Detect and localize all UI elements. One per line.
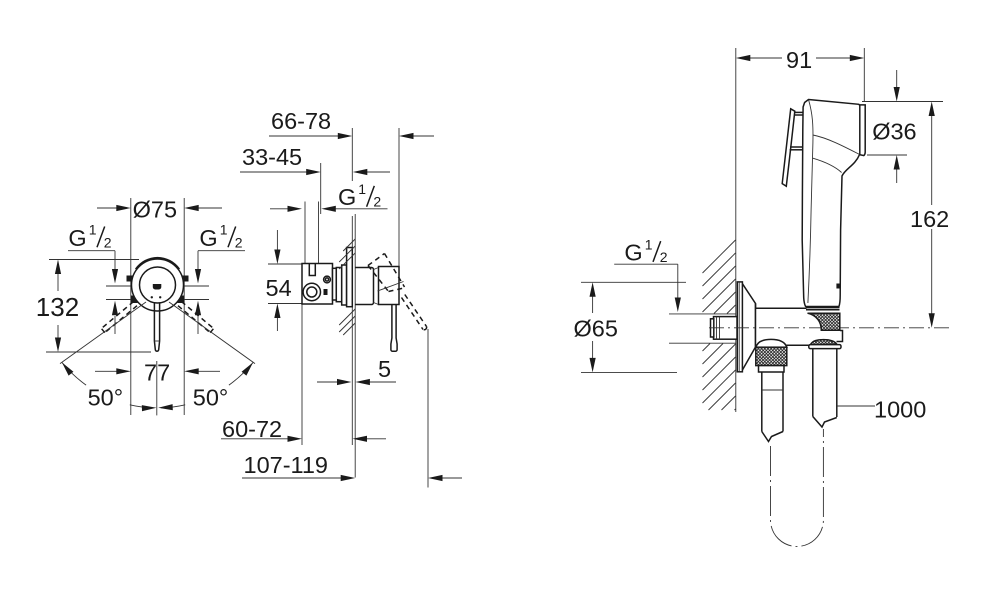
svg-text:G: G: [68, 225, 86, 251]
svg-text:2: 2: [660, 249, 668, 265]
svg-text:5: 5: [378, 356, 391, 382]
svg-text:G: G: [199, 225, 217, 251]
svg-text:Ø75: Ø75: [133, 197, 177, 223]
svg-text:1: 1: [358, 181, 366, 197]
svg-text:Ø36: Ø36: [872, 119, 916, 145]
svg-text:50°: 50°: [193, 385, 229, 411]
svg-text:2: 2: [104, 234, 112, 250]
svg-text:107-119: 107-119: [244, 452, 329, 478]
svg-text:54: 54: [266, 275, 292, 301]
svg-text:132: 132: [36, 292, 79, 322]
svg-text:2: 2: [373, 194, 381, 210]
svg-text:91: 91: [786, 47, 812, 73]
svg-text:33-45: 33-45: [242, 144, 302, 170]
svg-text:50°: 50°: [88, 385, 124, 411]
svg-text:Ø65: Ø65: [574, 316, 618, 342]
svg-text:1: 1: [220, 221, 228, 237]
svg-text:G: G: [624, 240, 642, 266]
svg-text:162: 162: [910, 206, 949, 232]
svg-text:1000: 1000: [874, 397, 926, 423]
svg-text:2: 2: [235, 234, 243, 250]
svg-text:60-72: 60-72: [222, 416, 282, 442]
svg-text:1: 1: [89, 221, 97, 237]
svg-text:1: 1: [645, 237, 653, 253]
svg-text:66-78: 66-78: [271, 108, 331, 134]
svg-text:G: G: [338, 184, 356, 210]
